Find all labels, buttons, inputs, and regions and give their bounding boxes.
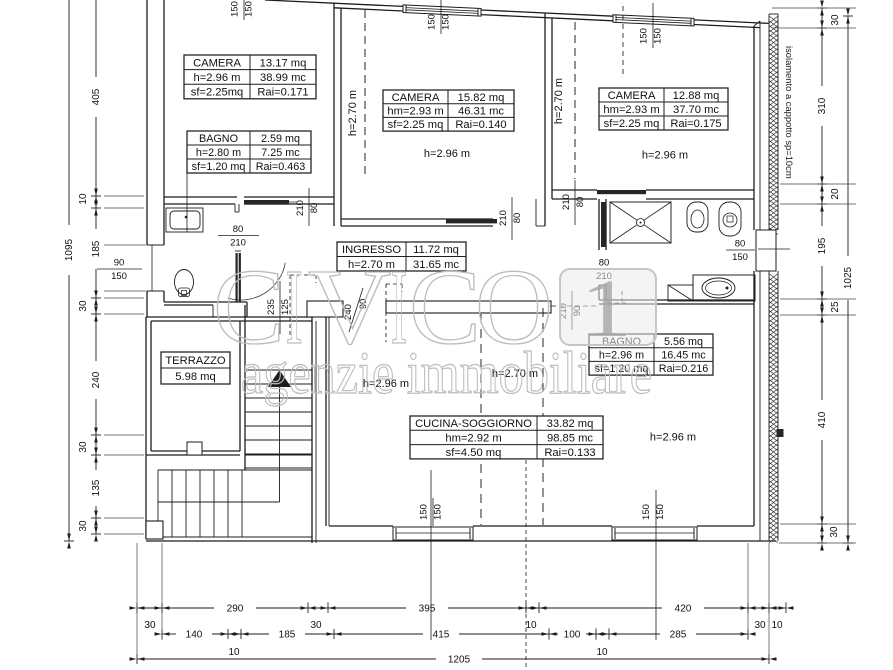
svg-text:1095: 1095: [64, 238, 75, 261]
svg-text:10: 10: [596, 647, 608, 658]
svg-text:30: 30: [754, 620, 766, 631]
svg-text:100: 100: [564, 630, 581, 641]
svg-text:240: 240: [91, 371, 102, 388]
svg-text:37.70 mc: 37.70 mc: [673, 104, 719, 116]
svg-text:38.99 mc: 38.99 mc: [260, 72, 306, 84]
svg-text:420: 420: [675, 604, 692, 615]
svg-text:2.59 mq: 2.59 mq: [261, 133, 300, 145]
svg-text:5.56 mq: 5.56 mq: [664, 336, 703, 348]
svg-text:hm=2.93 m: hm=2.93 m: [387, 106, 443, 118]
svg-text:80: 80: [735, 239, 746, 250]
svg-text:Rai=0.216: Rai=0.216: [659, 363, 709, 375]
svg-text:h=2.96 m: h=2.96 m: [642, 150, 688, 162]
svg-text:CAMERA: CAMERA: [392, 92, 440, 104]
svg-text:185: 185: [91, 240, 102, 257]
svg-text:80: 80: [309, 203, 320, 214]
svg-text:1: 1: [580, 263, 632, 355]
svg-text:13.17 mq: 13.17 mq: [260, 57, 307, 69]
svg-text:150: 150: [653, 28, 664, 44]
svg-text:210: 210: [498, 210, 509, 226]
svg-text:80: 80: [233, 224, 244, 235]
svg-text:Rai=0.171: Rai=0.171: [257, 87, 308, 99]
svg-text:415: 415: [433, 630, 450, 641]
svg-text:h=2.96 m: h=2.96 m: [650, 432, 696, 444]
svg-text:30: 30: [310, 620, 322, 631]
svg-text:sf=2.25mq: sf=2.25mq: [191, 87, 244, 99]
svg-text:CUCINA-SOGGIORNO: CUCINA-SOGGIORNO: [415, 418, 532, 430]
svg-text:sf=1.20 mq: sf=1.20 mq: [192, 161, 246, 173]
svg-text:h=2.70 m: h=2.70 m: [347, 90, 359, 136]
svg-text:395: 395: [419, 604, 436, 615]
svg-text:7.25 mc: 7.25 mc: [261, 147, 300, 159]
svg-text:150: 150: [419, 504, 430, 520]
svg-text:33.82 mq: 33.82 mq: [547, 418, 594, 430]
svg-text:30: 30: [78, 441, 89, 453]
svg-text:30: 30: [830, 14, 841, 26]
svg-text:150: 150: [639, 28, 650, 44]
svg-text:150: 150: [655, 504, 666, 520]
svg-text:10: 10: [525, 620, 537, 631]
svg-text:5.98 mq: 5.98 mq: [175, 371, 215, 383]
svg-text:30: 30: [829, 526, 840, 538]
svg-text:210: 210: [561, 194, 572, 210]
svg-text:10: 10: [771, 620, 783, 631]
svg-text:h=2.70 m: h=2.70 m: [553, 78, 565, 124]
svg-text:80: 80: [512, 213, 523, 224]
svg-text:20: 20: [830, 188, 841, 200]
svg-text:150: 150: [433, 504, 444, 520]
svg-text:BAGNO: BAGNO: [199, 133, 238, 145]
svg-text:98.85 mc: 98.85 mc: [547, 432, 593, 444]
svg-text:210: 210: [295, 200, 306, 216]
svg-text:isolamento a cappotto sp=10cm: isolamento a cappotto sp=10cm: [784, 46, 795, 179]
svg-text:12.88 mq: 12.88 mq: [673, 90, 720, 102]
svg-text:150: 150: [441, 14, 452, 30]
svg-text:1025: 1025: [843, 266, 854, 289]
svg-text:185: 185: [279, 630, 296, 641]
svg-text:46.31 mc: 46.31 mc: [458, 106, 504, 118]
svg-text:410: 410: [817, 411, 828, 428]
svg-text:285: 285: [670, 630, 687, 641]
svg-text:h=2.80 m: h=2.80 m: [196, 147, 241, 159]
svg-text:sf=2.25 mq: sf=2.25 mq: [388, 119, 444, 131]
svg-text:Rai=0.140: Rai=0.140: [455, 119, 506, 131]
svg-text:CAMERA: CAMERA: [608, 90, 656, 102]
svg-text:hm=2.93 m: hm=2.93 m: [603, 104, 659, 116]
svg-text:150: 150: [732, 252, 748, 263]
svg-text:30: 30: [144, 620, 156, 631]
svg-text:310: 310: [817, 97, 828, 114]
svg-text:Rai=0.463: Rai=0.463: [256, 161, 306, 173]
svg-text:h=2.96 m: h=2.96 m: [194, 72, 241, 84]
svg-text:405: 405: [91, 88, 102, 105]
svg-text:16.45 mc: 16.45 mc: [661, 350, 706, 362]
svg-text:195: 195: [817, 237, 828, 254]
svg-text:150: 150: [427, 14, 438, 30]
svg-text:80: 80: [575, 197, 586, 208]
svg-text:140: 140: [186, 630, 203, 641]
svg-text:10: 10: [228, 647, 240, 658]
svg-text:15.82 mq: 15.82 mq: [458, 92, 505, 104]
svg-text:hm=2.92 m: hm=2.92 m: [445, 432, 501, 444]
svg-text:h=2.96 m: h=2.96 m: [424, 148, 470, 160]
svg-text:30: 30: [78, 300, 89, 312]
svg-text:1205: 1205: [448, 655, 471, 666]
svg-text:290: 290: [227, 604, 244, 615]
svg-text:90: 90: [114, 258, 125, 269]
svg-text:150: 150: [641, 504, 652, 520]
svg-text:sf=4.50 mq: sf=4.50 mq: [446, 447, 502, 459]
svg-text:sf=2.25 mq: sf=2.25 mq: [604, 118, 660, 130]
svg-text:135: 135: [91, 479, 102, 496]
svg-text:Rai=0.175: Rai=0.175: [670, 118, 721, 130]
svg-text:Rai=0.133: Rai=0.133: [544, 447, 595, 459]
svg-text:150: 150: [230, 1, 241, 17]
svg-text:30: 30: [78, 520, 89, 532]
svg-text:210: 210: [230, 238, 246, 249]
svg-text:10: 10: [78, 193, 89, 205]
svg-text:150: 150: [111, 271, 127, 282]
svg-text:CAMERA: CAMERA: [193, 57, 241, 69]
svg-text:25: 25: [830, 301, 841, 313]
svg-text:150: 150: [244, 1, 255, 17]
